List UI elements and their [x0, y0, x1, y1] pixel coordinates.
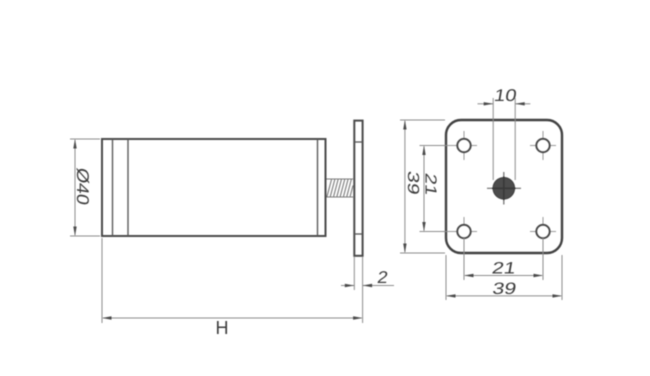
dim 39 left line	[404, 121, 406, 252]
center threaded hole	[487, 172, 521, 205]
dim 2 extension line	[353, 257, 355, 290]
hole bottom-right	[530, 217, 556, 246]
svg-text:10: 10	[493, 86, 518, 105]
dim H line	[103, 317, 362, 319]
dim H arrows	[102, 316, 112, 319]
mounting plate front view	[446, 120, 562, 253]
hole bottom-left	[447, 217, 477, 246]
plate side hole line bottom	[354, 233, 362, 235]
dim phi40 extension lines	[70, 138, 100, 140]
hole top-left	[447, 131, 477, 160]
dim 39 bottom extension lines	[445, 255, 447, 300]
dim 21 bottom line	[465, 275, 542, 277]
svg-text:21: 21	[422, 172, 440, 197]
dim 21 left extension lines	[420, 145, 448, 147]
hole top-right	[530, 131, 556, 160]
dim H extension lines	[101, 238, 103, 323]
mounting plate side view	[354, 121, 362, 256]
dim 21 bottom extension lines	[463, 238, 465, 280]
svg-text:39: 39	[491, 280, 518, 298]
cylinder chamfer line left 2	[127, 139, 129, 236]
cylinder chamfer line left 1	[112, 139, 114, 236]
plate side hole line top	[354, 141, 362, 143]
dim 21 left line	[423, 147, 425, 231]
dim 10 extension lines	[492, 98, 494, 180]
svg-text:Ø40: Ø40	[74, 166, 93, 206]
cylinder chamfer line right	[317, 139, 319, 236]
svg-text:H: H	[216, 318, 229, 338]
dim 39 bottom line	[447, 295, 561, 297]
dim phi40 arrows	[73, 139, 76, 149]
svg-text:2: 2	[376, 268, 389, 287]
svg-text:21: 21	[490, 259, 517, 277]
dim 39 left extension lines	[400, 119, 445, 121]
threaded stud	[327, 179, 354, 197]
svg-text:39: 39	[405, 170, 423, 196]
cylinder body side view	[102, 139, 326, 236]
dim phi40 line	[74, 140, 76, 235]
dim 2 line and arrows	[341, 285, 354, 287]
dim 10 line and arrows	[478, 103, 494, 105]
